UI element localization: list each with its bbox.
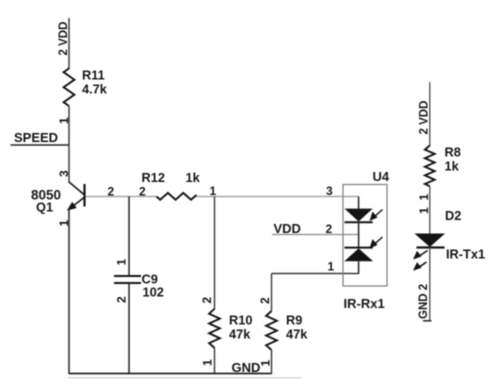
wire VDD to R8 bbox=[429, 82, 431, 146]
resistor R12 bbox=[157, 193, 197, 200]
wire D2 to GND bbox=[429, 248, 431, 321]
power VDD net (right) pin label "2 VDD" bbox=[419, 101, 431, 135]
pin 2 of Q1 bbox=[108, 185, 115, 199]
svg-text:1k: 1k bbox=[186, 170, 201, 185]
svg-text:4.7k: 4.7k bbox=[82, 82, 108, 97]
pin 1 of Q1 bbox=[57, 220, 71, 227]
svg-text:3: 3 bbox=[326, 184, 333, 198]
designator D2 bbox=[445, 208, 461, 223]
svg-text:1: 1 bbox=[417, 194, 431, 201]
wire pin1 corner down to R9 bbox=[271, 274, 273, 312]
value label R8 1k bbox=[445, 145, 461, 174]
value label 8050 Q1 bbox=[31, 188, 61, 215]
wire U4 internal pin3 drop bbox=[358, 197, 360, 210]
wire Q1 emitter down to ground rail bbox=[68, 209, 70, 374]
wire R9 to ground rail bbox=[271, 350, 273, 374]
value label R10 47k bbox=[229, 313, 252, 342]
wire U4 pin 1 bbox=[272, 273, 359, 275]
svg-text:1: 1 bbox=[259, 360, 273, 367]
svg-text:2: 2 bbox=[200, 297, 214, 304]
svg-text:R10: R10 bbox=[229, 313, 252, 328]
value label R12 1k bbox=[142, 170, 201, 185]
svg-text:47k: 47k bbox=[286, 327, 308, 342]
arrow into upper photodiode bbox=[370, 210, 383, 222]
wire node to R10 bbox=[214, 197, 216, 310]
value label C9 102 bbox=[142, 272, 164, 300]
pin 3 of U4 bbox=[326, 184, 333, 198]
svg-text:Q1: Q1 bbox=[36, 200, 53, 215]
IC U4 box bbox=[343, 185, 387, 287]
transistor Q1 bbox=[67, 182, 85, 211]
photodiode D-lower of U4 bbox=[344, 248, 373, 262]
wire R10 to ground rail bbox=[214, 348, 216, 374]
pin 3 of Q1 bbox=[57, 170, 71, 177]
wire U4 internal pin1 riser bbox=[358, 261, 360, 274]
wire node to C9 bbox=[128, 197, 130, 276]
svg-text:SPEED: SPEED bbox=[14, 130, 58, 145]
resistor R9 bbox=[266, 311, 277, 350]
pin 1 of R8 and pin 1 of D2 bbox=[417, 194, 431, 215]
bottom artifact smudge bbox=[68, 377, 302, 379]
ground rail wire bbox=[69, 373, 272, 375]
svg-text:1: 1 bbox=[417, 207, 431, 214]
value label R11 4.7k bbox=[82, 68, 108, 97]
pin 1 of R10 bbox=[201, 359, 215, 366]
wire R8 to D2 bbox=[429, 186, 431, 233]
wire VDD to R11 bbox=[68, 18, 70, 69]
svg-text:47k: 47k bbox=[229, 327, 251, 342]
svg-text:2: 2 bbox=[258, 297, 272, 304]
wire C9 to ground rail bbox=[128, 284, 130, 375]
pin 1 of C9 bbox=[115, 259, 129, 266]
svg-text:2: 2 bbox=[139, 185, 146, 199]
net label VDD bbox=[274, 221, 301, 236]
diode D2 bbox=[415, 234, 446, 248]
pin 2 of R12 bbox=[139, 185, 146, 199]
ground bar (right) bbox=[423, 320, 432, 322]
wire R12 to U4 pin 3 bbox=[197, 196, 359, 198]
svg-text:2: 2 bbox=[115, 296, 129, 303]
svg-text:R9: R9 bbox=[286, 313, 302, 328]
pin 1 of R11 bbox=[57, 117, 71, 124]
svg-text:102: 102 bbox=[143, 285, 164, 300]
svg-text:2 VDD: 2 VDD bbox=[58, 22, 70, 56]
svg-text:R12: R12 bbox=[142, 170, 165, 185]
value label IR-Rx1 bbox=[344, 296, 385, 311]
emission arrow 2 of D2 bbox=[413, 262, 427, 271]
svg-text:2: 2 bbox=[326, 222, 333, 236]
svg-text:GND 2: GND 2 bbox=[418, 284, 430, 319]
pin 2 of D2 and net label GND bbox=[418, 284, 430, 319]
net label SPEED bbox=[14, 130, 58, 145]
svg-text:1: 1 bbox=[201, 359, 215, 366]
power VDD net (left) pin label "2 VDD" bbox=[58, 22, 70, 56]
resistor R10 bbox=[209, 309, 220, 348]
value label R9 47k bbox=[286, 313, 308, 342]
svg-text:U4: U4 bbox=[373, 169, 390, 184]
svg-text:1: 1 bbox=[328, 260, 335, 274]
wire U4 internal mid link bbox=[358, 222, 360, 248]
svg-text:1: 1 bbox=[115, 259, 129, 266]
svg-text:D2: D2 bbox=[445, 208, 461, 223]
svg-text:R11: R11 bbox=[82, 68, 105, 83]
net label GND bbox=[232, 360, 261, 375]
wire SPEED underline bbox=[11, 144, 70, 146]
value label IR-Tx1 bbox=[446, 247, 485, 262]
photodiode D-upper of U4 bbox=[345, 209, 373, 223]
svg-text:2 VDD: 2 VDD bbox=[419, 101, 431, 135]
pin 1 of R9 bbox=[259, 360, 273, 367]
svg-text:1k: 1k bbox=[445, 159, 460, 174]
arrow into lower photodiode bbox=[370, 237, 383, 249]
svg-text:R8: R8 bbox=[445, 145, 461, 160]
pin 1 of U4 bbox=[328, 260, 335, 274]
emission arrow 1 of D2 bbox=[413, 251, 428, 260]
wire VDD to U4 pin 2 bbox=[272, 234, 359, 236]
pin 2 of R9 bbox=[258, 297, 272, 304]
svg-text:GND: GND bbox=[232, 360, 261, 375]
resistor R8 bbox=[425, 145, 435, 186]
designator U4 bbox=[373, 169, 390, 184]
wire R11 to Q1 bbox=[68, 106, 70, 183]
pin 2 of C9 bbox=[115, 296, 129, 303]
pin 2 of U4 bbox=[326, 222, 333, 236]
svg-text:VDD: VDD bbox=[274, 221, 301, 236]
svg-text:3: 3 bbox=[57, 170, 71, 177]
resistor R11 bbox=[64, 68, 75, 106]
pin 1 of R12 bbox=[210, 184, 217, 198]
capacitor C9 bbox=[114, 276, 141, 283]
pin 2 of R10 bbox=[200, 297, 214, 304]
svg-text:IR-Tx1: IR-Tx1 bbox=[446, 247, 485, 262]
svg-text:IR-Rx1: IR-Rx1 bbox=[344, 296, 385, 311]
wire Q1 base to R12 bbox=[86, 196, 157, 198]
